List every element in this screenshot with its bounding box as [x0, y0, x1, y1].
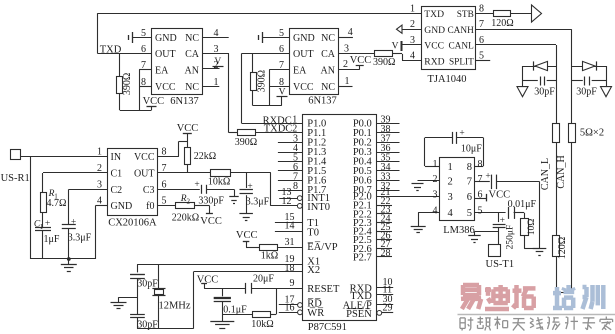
svg-text:31: 31	[285, 237, 295, 248]
svg-text:6N137: 6N137	[308, 96, 337, 107]
svg-text:NC: NC	[321, 33, 335, 44]
svg-text:2: 2	[433, 174, 438, 185]
svg-text:2: 2	[448, 177, 453, 188]
svg-text:0.1μF: 0.1μF	[223, 304, 247, 315]
svg-text:C2: C2	[111, 185, 123, 196]
svg-text:E̅A̅/VP: E̅A̅/VP	[307, 242, 337, 253]
svg-text:VCC: VCC	[236, 230, 258, 241]
svg-text:f0: f0	[146, 201, 154, 212]
svg-text:X2: X2	[307, 265, 320, 276]
svg-text:8: 8	[467, 162, 472, 173]
svg-text:CANH: CANH	[447, 26, 474, 36]
svg-text:VCC: VCC	[424, 41, 444, 52]
svg-text:1: 1	[433, 159, 438, 170]
svg-text:C3: C3	[143, 185, 155, 196]
svg-text:W̅R̅: W̅R̅	[307, 307, 324, 318]
svg-text:5: 5	[141, 28, 146, 39]
svg-text:120Ω: 120Ω	[557, 237, 568, 259]
svg-text:+: +	[71, 218, 76, 228]
svg-text:8: 8	[478, 159, 483, 170]
svg-text:AN: AN	[185, 65, 199, 76]
svg-text:4: 4	[448, 208, 454, 219]
svg-text:P87C591: P87C591	[308, 322, 347, 333]
svg-text:390Ω: 390Ω	[235, 137, 257, 148]
svg-text:2: 2	[410, 19, 415, 30]
svg-text:CAN_H: CAN_H	[556, 155, 567, 188]
svg-text:1μF: 1μF	[44, 234, 60, 245]
svg-text:T0: T0	[307, 227, 319, 238]
svg-text:0.01μF: 0.01μF	[508, 199, 537, 210]
svg-text:3: 3	[433, 189, 438, 200]
svg-text:4: 4	[348, 27, 353, 38]
svg-text:2: 2	[186, 198, 190, 206]
svg-text:CA: CA	[185, 49, 200, 60]
svg-text:30pF: 30pF	[137, 278, 158, 289]
svg-text:GND: GND	[155, 33, 177, 44]
svg-text:RXD: RXD	[424, 56, 444, 67]
svg-text:GND: GND	[293, 33, 315, 44]
svg-text:VCC: VCC	[200, 216, 222, 227]
svg-text:2: 2	[292, 124, 297, 135]
svg-text:4: 4	[97, 196, 102, 207]
svg-text:INT0: INT0	[307, 202, 330, 213]
svg-text:14: 14	[285, 221, 295, 232]
svg-text:22kΩ: 22kΩ	[194, 151, 216, 162]
svg-text:6: 6	[467, 192, 472, 203]
svg-text:NC: NC	[321, 82, 335, 93]
svg-text:1: 1	[448, 162, 453, 173]
svg-text:P̅S̅E̅N̅: P̅S̅E̅N̅	[346, 308, 372, 319]
svg-text:IN: IN	[111, 152, 122, 163]
svg-text:2: 2	[214, 60, 219, 71]
svg-text:+: +	[485, 171, 490, 181]
svg-text:1kΩ: 1kΩ	[261, 251, 278, 262]
svg-text:16: 16	[285, 303, 295, 314]
svg-text:1: 1	[345, 76, 350, 87]
svg-text:CX20106A: CX20106A	[108, 218, 157, 229]
svg-text:5Ω×2: 5Ω×2	[580, 127, 604, 138]
svg-text:TJA1040: TJA1040	[427, 74, 466, 85]
svg-text:C1: C1	[111, 169, 123, 180]
svg-text:3: 3	[448, 192, 453, 203]
svg-text:AN: AN	[321, 65, 335, 76]
svg-text:5: 5	[279, 28, 284, 39]
svg-text:3: 3	[214, 44, 219, 55]
svg-text:5: 5	[478, 205, 483, 216]
svg-text:8: 8	[279, 77, 284, 88]
svg-text:GND: GND	[111, 201, 133, 212]
svg-text:2: 2	[343, 59, 348, 70]
svg-text:12: 12	[282, 196, 292, 207]
svg-text:6: 6	[478, 189, 483, 200]
svg-text:6: 6	[279, 44, 284, 55]
svg-text:+: +	[500, 216, 505, 226]
svg-text:SPLIT: SPLIT	[449, 57, 474, 67]
svg-text:28: 28	[381, 248, 391, 259]
svg-text:+: +	[459, 129, 464, 139]
svg-text:7: 7	[478, 174, 483, 185]
svg-text:9: 9	[290, 278, 295, 289]
svg-text:VCC: VCC	[155, 82, 176, 93]
svg-text:220kΩ: 220kΩ	[172, 213, 199, 224]
svg-text:7: 7	[467, 177, 472, 188]
svg-text:V: V	[279, 88, 286, 98]
svg-text:TXDC: TXDC	[264, 124, 293, 135]
svg-text:29: 29	[383, 303, 393, 314]
svg-text:6: 6	[162, 180, 167, 191]
svg-text:EA: EA	[155, 65, 169, 76]
svg-text:10μF: 10μF	[461, 143, 482, 154]
svg-text:+: +	[194, 180, 199, 190]
svg-text:120Ω: 120Ω	[491, 18, 513, 29]
svg-text:V: V	[392, 42, 399, 52]
svg-text:30pF: 30pF	[534, 87, 555, 98]
svg-text:P2.7: P2.7	[353, 252, 372, 263]
svg-text:EA: EA	[293, 65, 307, 76]
svg-text:1: 1	[214, 77, 219, 88]
svg-text:1: 1	[97, 147, 102, 158]
svg-text:OUT: OUT	[155, 49, 176, 60]
svg-text:OUT: OUT	[134, 169, 155, 180]
svg-text:+: +	[247, 182, 252, 192]
svg-text:OUT: OUT	[293, 49, 314, 60]
svg-text:TXD: TXD	[100, 45, 122, 56]
svg-text:10kΩ: 10kΩ	[208, 177, 230, 188]
svg-text:3: 3	[410, 35, 415, 46]
svg-text:US-T1: US-T1	[486, 259, 515, 270]
svg-text:GND: GND	[424, 25, 445, 36]
svg-text:+: +	[45, 219, 50, 229]
svg-text:12MHz: 12MHz	[158, 301, 190, 312]
svg-text:20μF: 20μF	[253, 274, 274, 285]
svg-text:5: 5	[467, 208, 472, 219]
svg-text:TXD: TXD	[424, 9, 444, 20]
svg-text:CANL: CANL	[448, 42, 474, 52]
svg-text:6: 6	[141, 44, 146, 55]
svg-text:4: 4	[214, 28, 219, 39]
svg-text:390Ω: 390Ω	[122, 73, 133, 95]
svg-text:STB: STB	[457, 10, 474, 20]
svg-text:1: 1	[410, 4, 415, 15]
svg-text:1: 1	[40, 223, 44, 231]
svg-text:7: 7	[279, 60, 284, 71]
svg-text:VCC: VCC	[134, 152, 155, 163]
svg-text:NC: NC	[185, 82, 199, 93]
svg-text:4: 4	[410, 51, 415, 62]
svg-text:30pF: 30pF	[576, 87, 597, 98]
svg-text:VCC: VCC	[197, 274, 219, 285]
svg-text:8: 8	[479, 4, 484, 15]
svg-text:CAN_L: CAN_L	[540, 158, 551, 190]
svg-text:390Ω: 390Ω	[256, 70, 267, 92]
svg-text:390Ω: 390Ω	[373, 57, 395, 68]
svg-text:330pF: 330pF	[198, 196, 224, 207]
svg-text:4: 4	[433, 205, 438, 216]
svg-text:LM386: LM386	[443, 225, 475, 236]
svg-text:VCC: VCC	[143, 96, 165, 107]
svg-text:VCC: VCC	[350, 55, 372, 66]
svg-text:VCC: VCC	[177, 123, 199, 134]
svg-text:10kΩ: 10kΩ	[251, 319, 273, 330]
svg-text:RESET: RESET	[307, 284, 340, 295]
svg-text:10Ω: 10Ω	[527, 219, 537, 236]
svg-text:8: 8	[293, 181, 298, 192]
svg-text:VCC: VCC	[293, 82, 314, 93]
svg-text:3.3μF: 3.3μF	[68, 233, 92, 244]
svg-text:3: 3	[97, 180, 102, 191]
svg-text:CA: CA	[321, 49, 336, 60]
svg-text:2: 2	[97, 163, 102, 174]
svg-text:6N137: 6N137	[170, 96, 199, 107]
svg-text:3: 3	[344, 43, 349, 54]
svg-text:18: 18	[285, 263, 295, 274]
svg-text:7: 7	[141, 60, 146, 71]
svg-text:US-R1: US-R1	[1, 173, 30, 184]
svg-text:8: 8	[141, 77, 146, 88]
svg-text:250μF: 250μF	[505, 225, 515, 250]
svg-text:4.7Ω: 4.7Ω	[47, 198, 67, 209]
svg-text:NC: NC	[185, 33, 199, 44]
svg-text:7: 7	[479, 19, 484, 30]
svg-text:3.3μF: 3.3μF	[246, 197, 270, 208]
